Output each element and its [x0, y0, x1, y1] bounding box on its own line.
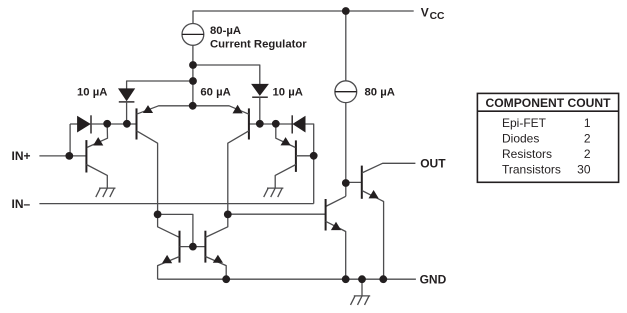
- svg-text:1: 1: [584, 116, 591, 130]
- svg-text:IN+: IN+: [12, 149, 31, 163]
- svg-text:Resistors: Resistors: [502, 147, 552, 161]
- svg-text:GND: GND: [420, 272, 447, 286]
- svg-text:Epi-FET: Epi-FET: [502, 116, 547, 130]
- svg-text:60 µA: 60 µA: [200, 87, 230, 99]
- svg-text:OUT: OUT: [420, 157, 446, 171]
- svg-text:COMPONENT COUNT: COMPONENT COUNT: [486, 96, 612, 110]
- svg-text:Diodes: Diodes: [502, 131, 539, 145]
- svg-text:10 µA: 10 µA: [273, 87, 303, 99]
- svg-text:2: 2: [584, 147, 591, 161]
- svg-text:10 µA: 10 µA: [77, 87, 107, 99]
- svg-text:V: V: [421, 6, 429, 20]
- svg-text:Current Regulator: Current Regulator: [210, 39, 307, 51]
- svg-text:30: 30: [577, 162, 591, 176]
- svg-text:80 µA: 80 µA: [365, 87, 395, 99]
- svg-text:IN–: IN–: [12, 197, 31, 211]
- svg-text:CC: CC: [430, 11, 445, 22]
- svg-text:80-µA: 80-µA: [210, 25, 241, 37]
- svg-text:Transistors: Transistors: [502, 162, 561, 176]
- svg-text:2: 2: [584, 131, 591, 145]
